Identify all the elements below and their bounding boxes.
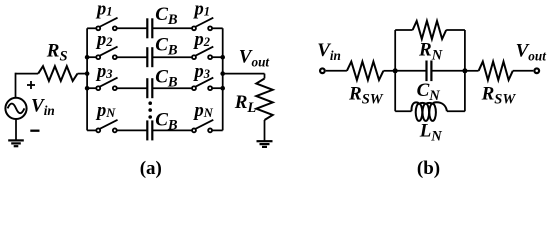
svg-text:(a): (a) (140, 158, 162, 179)
svg-text:(b): (b) (417, 158, 440, 179)
